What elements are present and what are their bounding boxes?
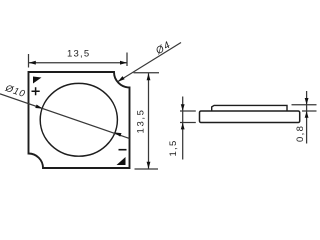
side view top plate	[212, 105, 287, 111]
side height extension line bottom	[180, 122, 196, 124]
side height arrow top	[181, 104, 185, 111]
right dimension arrow bottom	[147, 162, 151, 169]
top plate extension line upper	[292, 104, 317, 106]
diameter 4 arrow	[118, 76, 125, 82]
top plate extension line lower	[302, 110, 317, 112]
diameter 10 arrow upper	[35, 105, 43, 109]
top dimension line 13,5	[29, 62, 128, 64]
plus sign	[32, 87, 40, 95]
top dimension arrow left	[29, 61, 36, 65]
right dimension extension line top	[134, 72, 160, 74]
minus sign	[119, 149, 127, 151]
LED package top view outline	[29, 72, 130, 168]
top dimension arrow right	[120, 61, 127, 65]
top dimension extension line left	[28, 54, 30, 68]
right dimension line 13,5	[148, 73, 150, 169]
right dimension extension line bottom	[135, 168, 159, 170]
polarity mark triangle bottom-right	[117, 157, 126, 165]
top plate arrow upper	[305, 98, 309, 105]
top dimension extension line right	[126, 53, 128, 67]
side height extension line top	[180, 110, 196, 112]
svg-text:13,5: 13,5	[67, 48, 90, 59]
diameter 10 dimension line	[0, 94, 130, 139]
side height arrow bottom	[181, 123, 185, 130]
side view substrate body	[200, 111, 300, 123]
right dimension arrow top	[147, 73, 151, 80]
top plate arrow lower	[305, 111, 309, 118]
side height dimension line 1,5	[182, 97, 184, 160]
svg-text:1,5: 1,5	[168, 139, 179, 156]
polarity mark triangle top-left	[33, 77, 42, 84]
svg-text:0,8: 0,8	[295, 125, 306, 142]
diameter 4 leader line	[118, 43, 181, 82]
top plate dimension line 0,8	[306, 91, 308, 144]
emitting area circle	[40, 83, 117, 156]
svg-text:13,5: 13,5	[136, 109, 147, 134]
diameter 10 arrow lower	[114, 132, 122, 136]
